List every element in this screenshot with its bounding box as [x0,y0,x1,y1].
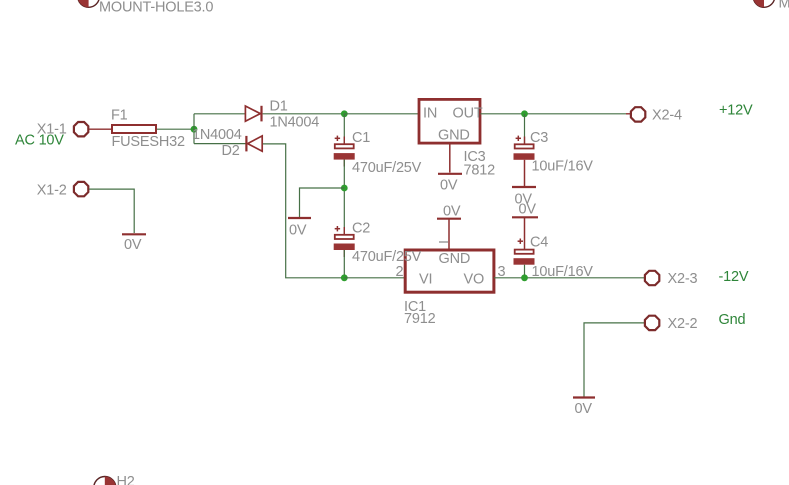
supply bar above IC1 GND [437,218,461,220]
wire X2-2 to ground [584,323,645,397]
wire node B to IC3 IN [344,113,419,115]
wire X1-2 to ground [89,189,134,233]
capacitor C3 [514,136,535,160]
wire D2 anode right and down to bottom rail [263,144,345,278]
svg-text:FUSESH32: FUSESH32 [112,134,185,150]
pad X1-1 [74,122,88,136]
svg-text:7812: 7812 [464,163,496,179]
svg-text:MOUNT-HOLE3.0: MOUNT-HOLE3.0 [99,0,213,16]
IC1 GND pin stem [448,219,450,249]
svg-text:H2: H2 [117,474,135,485]
svg-text:470uF/25V: 470uF/25V [352,160,422,176]
wire node A to D2 cathode [194,143,246,145]
wire node D to IC1 VI [344,277,405,279]
node F junction (bottom rail under C4) [521,274,528,281]
ground X2-2 (0V) [573,396,595,398]
svg-text:X1-2: X1-2 [37,183,67,199]
svg-text:Gnd: Gnd [719,312,746,328]
svg-text:F1: F1 [111,108,128,124]
wire node E down to C3 [524,114,526,144]
C4 top stem [524,217,526,249]
C3 bottom stem [524,160,526,186]
ground mid (0V) [288,217,311,219]
svg-text:0V: 0V [124,237,142,253]
svg-text:470uF/25V: 470uF/25V [352,249,422,265]
regulator IC1 box [405,250,494,292]
mount hole H2 bottom-left [94,477,116,485]
svg-text:C1: C1 [352,130,370,146]
svg-text:C3: C3 [530,130,548,146]
svg-text:0V: 0V [575,401,593,417]
diode D2 [246,136,262,152]
pad X2-2 [645,316,659,330]
svg-text:VI: VI [419,272,432,288]
svg-text:D1: D1 [270,99,288,115]
mount hole top-right [753,0,775,7]
svg-text:C2: C2 [352,221,370,237]
svg-text:X2-2: X2-2 [668,316,698,332]
fuse F1 [112,125,156,133]
wire F1 to node A [157,128,194,130]
svg-text:0V: 0V [289,223,307,239]
wire IC1 VO to X2-3 [494,277,645,279]
pad X2-4 lead [626,113,631,115]
node B junction (top rail over C1) [341,110,348,117]
svg-text:0V: 0V [519,202,537,218]
svg-text:0V: 0V [440,178,458,194]
IC3 GND pin stem [449,143,451,173]
capacitor C4 [514,239,535,265]
wire D1 cathode to node B [263,113,345,115]
pin 1 dash (IC1) [439,241,448,243]
wire node C to mid ground [300,188,345,217]
svg-text:2: 2 [396,264,404,280]
node C junction (between C1 and C2) [341,185,348,192]
svg-text:MOUNT-HOLE3.0: MOUNT-HOLE3.0 [779,0,789,12]
wire node B down to C1 [343,114,345,144]
svg-text:OUT: OUT [453,105,483,121]
wire C1 bottom to node C [343,160,345,234]
wire C4 bottom to node F [524,265,526,278]
pad X2-4 [631,107,645,121]
capacitor C2 [334,226,355,257]
wire C2 bottom to node D [343,250,345,278]
wire node A up to D1 row [193,114,195,144]
svg-text:IN: IN [423,105,437,121]
wire IC3 OUT to node E [481,113,627,115]
svg-text:X2-4: X2-4 [652,108,682,124]
svg-text:GND: GND [439,251,471,267]
supply bar above C4 [512,216,538,218]
svg-text:1N4004: 1N4004 [270,115,320,131]
mount hole H1 top-left [78,0,100,7]
node D junction (bottom rail under C2) [341,274,348,281]
pad X1-2 [74,182,88,196]
wire node A to D1 anode [194,113,245,115]
wire X1-1 to F1 (pin lead) [89,128,112,130]
svg-text:7912: 7912 [404,311,436,327]
svg-text:0V: 0V [443,204,461,220]
svg-text:GND: GND [438,127,470,143]
capacitor C1 [334,136,355,167]
diode D1 [245,106,261,122]
svg-text:-12V: -12V [719,269,749,285]
svg-text:C4: C4 [530,235,548,251]
ground X1-2 (0V) [122,233,146,235]
node E junction (top rail over C3) [521,110,528,117]
regulator IC3 box [419,99,480,143]
ground IC3 (0V) [438,173,462,175]
svg-text:D2: D2 [222,143,240,159]
svg-text:10uF/16V: 10uF/16V [532,159,594,175]
svg-text:AC 10V: AC 10V [15,133,64,149]
svg-text:1N4004: 1N4004 [192,127,242,143]
svg-text:+12V: +12V [719,103,753,119]
svg-text:X2-3: X2-3 [668,271,698,287]
pad X2-3 [645,271,659,285]
ground under C3 (0V) [512,186,536,188]
node A junction [191,126,198,133]
svg-text:VO: VO [464,272,485,288]
